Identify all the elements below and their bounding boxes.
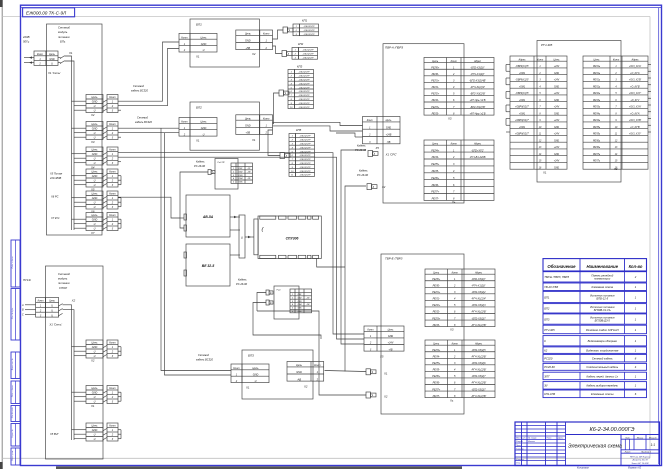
svg-text:Электрическая схема: Электрическая схема (568, 444, 622, 450)
svg-text:РЕЛ1ь: РЕЛ1ь (593, 66, 601, 68)
svg-text:-ОВР9(Х1)'5': -ОВР9(Х1)'5' (515, 80, 529, 82)
svg-text:Кабель: Кабель (359, 169, 368, 173)
svg-text:Подп.: Подп. (547, 437, 553, 440)
svg-text:Клеммная плата: Клеммная плата (591, 285, 613, 289)
svg-text:+О_КУ'А': +О_КУ'А' (630, 112, 640, 115)
svg-text:+ОУ1_Х3'А': +ОУ1_Х3'А' (629, 106, 642, 109)
svg-text:GND: GND (554, 140, 559, 142)
svg-text:БП2: БП2 (196, 106, 202, 110)
svg-text:-БП2-Х3(2)5: -БП2-Х3(2)5 (472, 349, 487, 352)
svg-text:Цепь: Цепь (594, 58, 601, 61)
svg-text:-БП2-Х3(2)7: -БП2-Х3(2)7 (472, 317, 487, 320)
svg-text:Цепь: Цепь (92, 171, 99, 174)
svg-text:GND: GND (92, 346, 98, 349)
svg-text:Конт: Конт (109, 123, 115, 126)
svg-text:БП1: БП1 (196, 23, 202, 27)
svg-text:Цепь: Цепь (92, 96, 99, 99)
svg-text:Масшт: Масшт (649, 437, 657, 439)
svg-text:Х6 РС: Х6 РС (50, 195, 59, 199)
svg-text:U: U (94, 223, 96, 226)
svg-text:Конт: Конт (452, 342, 458, 345)
svg-text:ПУ1Ж: ПУ1Ж (23, 278, 31, 282)
svg-text:Наименование: Наименование (587, 264, 619, 269)
svg-text:U: U (94, 180, 96, 183)
svg-text:РЕЛ5ь: РЕЛ5ь (593, 134, 601, 136)
svg-text:РЕЛ2-: РЕЛ2- (433, 311, 440, 314)
svg-text:Х7 КУ1: Х7 КУ1 (50, 216, 60, 220)
svg-text:+ОУ1_Х3'У': +ОУ1_Х3'У' (629, 134, 642, 136)
svg-text:-РГЧ-Х1(2)'В': -РГЧ-Х1(2)'В' (471, 369, 487, 372)
svg-text:Адрес: Адрес (517, 58, 526, 61)
svg-text:-ОВ-Х2-ПР: -ОВ-Х2-ПР (298, 72, 310, 74)
svg-text:-БП2-Х3(2)7: -БП2-Х3(2)7 (472, 375, 487, 378)
svg-text:+ОМ1: +ОМ1 (519, 100, 526, 102)
svg-text:+ОУ1_Х2'У': +ОУ1_Х2'У' (629, 93, 642, 95)
svg-text:ВЕ 32-5: ВЕ 32-5 (202, 264, 215, 268)
svg-text:РЕЛ3-: РЕЛ3- (433, 324, 440, 327)
svg-text:ПВР-А /ПВРЗ: ПВР-А /ПВРЗ (385, 45, 403, 49)
svg-text:Х1: Х1 (195, 55, 200, 59)
svg-text:Конт: Конт (109, 149, 115, 152)
svg-text:питания: питания (58, 281, 70, 285)
svg-text:+24V: +24V (554, 65, 560, 68)
svg-text:Андреев Ив. М: Андреев Ив. М (631, 459, 647, 462)
svg-text:Х7: Х7 (90, 231, 95, 235)
svg-text:-РГЧ-Х1(2)'В': -РГЧ-Х1(2)'В' (471, 356, 487, 359)
svg-text:-РГЧ-Х1(2)'В': -РГЧ-Х1(2)'В' (471, 382, 487, 385)
svg-text:Конт: Конт (37, 53, 43, 56)
svg-text:Кабель: Кабель (238, 278, 247, 282)
svg-text:Цепь: Цепь (92, 214, 99, 217)
svg-text:РЕЛ3+: РЕЛ3+ (432, 317, 440, 320)
svg-text:Иванов: Иванов (528, 441, 535, 443)
svg-text:-БП2-Х3(2)6: -БП2-Х3(2)6 (472, 362, 487, 365)
svg-text:Сетевой: Сетевой (137, 116, 149, 120)
svg-text:Цепь: Цепь (92, 425, 99, 428)
svg-text:-ОВ-Х2-ПР: -ОВ-Х2-ПР (302, 54, 314, 56)
svg-text:КП3: КП3 (297, 65, 303, 69)
svg-text:GND: GND (386, 126, 392, 129)
svg-text:Адрес: Адрес (630, 58, 639, 61)
svg-text:U: U (51, 309, 53, 312)
svg-text:Конт: Конт (233, 367, 239, 370)
svg-text:БП30В-С1-Пь: БП30В-С1-Пь (594, 308, 612, 312)
svg-text:-ОВ-Х2-ПР: -ОВ-Х2-ПР (299, 171, 311, 173)
svg-text:РЕЛ6ь: РЕЛ6ь (593, 140, 601, 142)
svg-text:Утв.: Утв. (516, 462, 521, 464)
svg-text:РЕЛ3ь: РЕЛ3ь (593, 100, 601, 102)
svg-text:Конт: Конт (109, 342, 115, 345)
svg-text:УВ-20 /УВЗ: УВ-20 /УВЗ (544, 285, 558, 289)
svg-text:+24V: +24V (554, 160, 560, 163)
svg-text:РЕЛ7-: РЕЛ7- (433, 395, 440, 398)
svg-text:РС-26-60: РС-26-60 (236, 282, 248, 286)
svg-text:GND: GND (245, 125, 251, 128)
svg-text:КП5: КП5 (296, 128, 302, 132)
svg-text:РЕЛ4ь: РЕЛ4ь (593, 119, 601, 122)
svg-text:-БП2-Х3(2)'В': -БП2-Х3(2)'В' (470, 93, 486, 96)
svg-text:GND: GND (554, 167, 559, 169)
svg-text:К6-2-34.00.000ГЭ: К6-2-34.00.000ГЭ (589, 427, 634, 433)
svg-text:GND: GND (201, 43, 207, 46)
svg-text:РЕЛ0-: РЕЛ0- (432, 73, 439, 76)
svg-text:Х1: Х1 (542, 171, 547, 175)
svg-text:GND: GND (92, 197, 98, 200)
svg-text:Цепь: Цепь (432, 60, 439, 63)
svg-text:+ОУ1_Х3'В': +ОУ1_Х3'В' (629, 120, 642, 122)
svg-text:РЕЛ1+: РЕЛ1+ (432, 291, 440, 294)
svg-text:ОВ1: ОВ1 (298, 294, 302, 296)
svg-text:+24V: +24V (554, 133, 560, 136)
svg-text:РС-26-60: РС-26-60 (357, 173, 369, 177)
svg-text:GND: GND (92, 101, 98, 104)
svg-text:Х1: Х1 (251, 138, 256, 142)
svg-text:-БП2-Х3(2)'4В': -БП2-Х3(2)'4В' (469, 80, 486, 83)
svg-text:-ОВ-Х2-ПР: -ОВ-Х2-ПР (298, 83, 310, 85)
svg-text:-РГЧ-Х1(2)'t': -РГЧ-Х1(2)'t' (470, 73, 485, 76)
svg-text:-П4: -П4 (247, 170, 250, 173)
svg-text:РиЧ: РиЧ (277, 290, 281, 292)
svg-text:U: U (94, 351, 96, 354)
svg-text:-ОВ-Х2-ПР: -ОВ-Х2-ПР (303, 34, 315, 36)
svg-text:GND: GND (92, 128, 98, 131)
svg-text:РЕЛ7ь: РЕЛ7ь (593, 161, 601, 163)
svg-text:Хь: Хь (449, 399, 454, 403)
svg-text:U: U (94, 158, 96, 161)
svg-text:БП1: БП1 (544, 295, 550, 299)
svg-text:+О_КУ'х': +О_КУ'х' (630, 100, 640, 102)
svg-text:БП30В-Д3-5: БП30В-Д3-5 (595, 319, 611, 323)
svg-text:модуль: модуль (58, 30, 68, 34)
svg-text:Цепь: Цепь (245, 33, 252, 36)
svg-text:-РГЧ-Х1(2)'t': -РГЧ-Х1(2)'t' (471, 285, 486, 288)
svg-text:Цепь: Цепь (433, 342, 440, 345)
svg-text:-АВ: -АВ (388, 348, 393, 351)
svg-text:GND: GND (554, 154, 559, 156)
svg-text:РЕЛ1-: РЕЛ1- (432, 86, 439, 89)
svg-text:11: 11 (291, 175, 293, 177)
svg-text:Цепь: Цепь (245, 117, 252, 120)
svg-text:Конт: Конт (109, 387, 115, 390)
svg-text:Дата: Дата (557, 438, 564, 440)
svg-text:+24V: +24V (554, 79, 560, 82)
svg-text:РТЧ-305: РТЧ-305 (544, 328, 555, 332)
svg-text:Цепь: Цепь (201, 36, 208, 39)
svg-text:1: 1 (233, 168, 234, 170)
svg-text:Завод НС 15-202: Завод НС 15-202 (631, 462, 649, 465)
svg-text:+24V: +24V (554, 146, 560, 149)
svg-text:+24V: +24V (554, 119, 560, 122)
svg-text:Конт: Конт (314, 364, 320, 367)
svg-text:1: 1 (292, 294, 293, 296)
svg-text:Цепь: Цепь (92, 342, 99, 345)
svg-text:Инв.№ подл.: Инв.№ подл. (11, 406, 14, 418)
svg-text:питания: питания (58, 35, 70, 39)
svg-text:-ОВ-Х2-ПР: -ОВ-Х2-ПР (299, 147, 311, 149)
svg-text:U: U (94, 396, 96, 399)
svg-text:кабель ВС320: кабель ВС320 (135, 120, 152, 124)
svg-text:ЕЖ000.00 ТК-С-9Л: ЕЖ000.00 ТК-С-9Л (26, 10, 67, 15)
svg-text:Конт: Конт (537, 58, 543, 61)
svg-text:Видеокамера обзорная: Видеокамера обзорная (588, 339, 618, 343)
svg-text:Адрес: Адрес (473, 142, 482, 145)
svg-text:-ОВ-Х2-ПР: -ОВ-Х2-ПР (299, 140, 311, 142)
svg-text:4: 4 (233, 177, 234, 180)
svg-text:Х3: Х3 (90, 140, 95, 144)
svg-text:+24V: +24V (554, 92, 560, 95)
svg-text:ТВР-Е /ТВРЗ: ТВР-Е /ТВРЗ (385, 257, 403, 261)
svg-text:+ОВР9(Х2)'7': +ОВР9(Х2)'7' (515, 107, 530, 109)
svg-text:-ОВ-Х2-ПР: -ОВ-Х2-ПР (299, 163, 311, 165)
svg-text:РЕЛ5+: РЕЛ5+ (431, 163, 439, 166)
svg-text:Х2: Х2 (71, 299, 76, 303)
svg-text:РЕЛ5ь: РЕЛ5ь (593, 127, 601, 129)
svg-text:РЕЛ1-: РЕЛ1- (433, 298, 440, 301)
svg-text:РЕЛ7ь: РЕЛ7ь (593, 154, 601, 156)
svg-text:Х3: Х3 (449, 328, 454, 332)
svg-text:-БП2-Х3(2)7: -БП2-Х3(2)7 (472, 388, 487, 391)
svg-text:ОВ4: ОВ4 (298, 303, 302, 306)
svg-text:U: U (203, 133, 205, 136)
svg-text:НПП им. ВН Карпов: НПП им. ВН Карпов (630, 457, 651, 459)
svg-text:-БП2-Х3(2)2: -БП2-Х3(2)2 (472, 291, 487, 294)
svg-text:Цепь: Цепь (296, 364, 303, 367)
svg-text:-ОВ-Х2-ПР: -ОВ-Х2-ПР (298, 107, 310, 109)
svg-text:-ОВ-Х2-ПР: -ОВ-Х2-ПР (302, 50, 314, 52)
svg-text:-РГЧ-Х1(2)'4': -РГЧ-Х1(2)'4' (471, 298, 486, 301)
svg-text:РЕЛ7-: РЕЛ7- (432, 198, 439, 201)
svg-text:-ОВ-Х2-ПР: -ОВ-Х2-ПР (303, 30, 315, 32)
svg-text:Сетевой: Сетевой (198, 353, 210, 357)
svg-text:+24V: +24V (554, 106, 560, 109)
svg-text:Конт: Конт (181, 121, 187, 124)
svg-text:220В: 220В (22, 35, 30, 39)
svg-text:-ОВ-Х2-ПР: -ОВ-Х2-ПР (299, 144, 311, 146)
svg-text:Цепь: Цепь (388, 329, 394, 332)
svg-text:Листов 1: Листов 1 (640, 452, 652, 454)
svg-text:СПОР: СПОР (59, 286, 67, 290)
svg-text:+ОМ1: +ОМ1 (519, 113, 526, 115)
svg-text:+ОВР9(Х2)'7': +ОВР9(Х2)'7' (515, 134, 530, 136)
svg-text:Конт: Конт (367, 119, 373, 122)
svg-text:1:1: 1:1 (651, 443, 656, 447)
svg-text:-ОВ-Х2-ПР: -ОВ-Х2-ПР (298, 99, 310, 101)
svg-text:-ОВ-Х2-ПР: -ОВ-Х2-ПР (298, 87, 310, 89)
svg-text:РиЧ ПР: РиЧ ПР (218, 162, 226, 164)
svg-text:Х5 Питан: Х5 Питан (49, 172, 63, 176)
svg-text:ЭУ: ЭУ (544, 384, 548, 388)
svg-text:Адрес: Адрес (474, 271, 483, 274)
svg-text:РЕЛ3+: РЕЛ3+ (431, 106, 439, 109)
svg-text:1: 1 (295, 50, 296, 52)
svg-text:-ОВ-Х2-ПР: -ОВ-Х2-ПР (303, 26, 315, 28)
svg-text:-РГЧ-Х1(2)'В': -РГЧ-Х1(2)'В' (471, 311, 487, 314)
svg-text:-ОВ-Х2-ПР: -ОВ-Х2-ПР (298, 91, 310, 93)
svg-text:Х2: Х2 (613, 167, 618, 171)
svg-text:БПВ-12-5: БПВ-12-5 (596, 297, 608, 301)
svg-text:РЕЛ2+: РЕЛ2+ (432, 304, 440, 307)
svg-text:Конт: Конт (452, 271, 458, 274)
svg-text:РЕЛ2ь: РЕЛ2ь (593, 93, 601, 95)
svg-text:Цепь: Цепь (433, 271, 440, 274)
svg-text:1: 1 (292, 136, 293, 138)
svg-text:-РГЧ-Х1(2)'В': -РГЧ-Х1(2)'В' (471, 395, 487, 398)
svg-text:GND: GND (92, 175, 98, 178)
svg-text:-БП2-Х3(2)'В': -БП2-Х3(2)'В' (470, 106, 486, 109)
svg-text:+24V: +24V (388, 342, 394, 345)
svg-text:РЕЛ3ь: РЕЛ3ь (593, 107, 601, 109)
svg-text:Лит: Лит (624, 437, 630, 439)
svg-text:РЕЛ1ь: РЕЛ1ь (593, 86, 601, 88)
svg-text:Обозначение: Обозначение (547, 264, 576, 269)
svg-text:+ОМ1: +ОМ1 (519, 73, 526, 75)
svg-text:РЕЛ7+: РЕЛ7+ (432, 388, 440, 391)
svg-text:РЕЛ5-: РЕЛ5- (433, 369, 440, 372)
svg-text:ОВ1: ОВ1 (239, 168, 243, 170)
svg-text:Цепь: Цепь (49, 300, 55, 303)
svg-text:РЕЛ2+: РЕЛ2+ (431, 93, 439, 96)
svg-text:+РГ-Чрь-'х1'В: +РГ-Чрь-'х1'В (470, 112, 486, 115)
svg-text:+ОУ1_Х2'В': +ОУ1_Х2'В' (629, 80, 642, 82)
svg-text:ТВР-Е /ТВРЗ, ПВРЗ: ТВР-Е /ТВРЗ, ПВРЗ (544, 275, 569, 279)
svg-text:Х2: Х2 (90, 113, 95, 117)
svg-text:Конт: Конт (109, 214, 115, 217)
svg-text:БП3: БП3 (544, 317, 550, 321)
svg-text:GND: GND (554, 127, 559, 129)
svg-text:Конт: Конт (451, 60, 457, 63)
svg-text:+ОУ1_Х2'А': +ОУ1_Х2'А' (629, 65, 642, 68)
svg-text:Конт: Конт (109, 193, 115, 196)
svg-text:Кабель выбора-передачи: Кабель выбора-передачи (586, 384, 618, 388)
svg-text:РЕЛ6+: РЕЛ6+ (432, 375, 440, 378)
svg-text:U: U (94, 202, 96, 205)
svg-text:К2: К2 (544, 348, 548, 352)
svg-text:РЕЛ3-: РЕЛ3- (432, 112, 439, 115)
svg-text:Х5: Х5 (375, 146, 380, 150)
svg-text:А: А (21, 304, 24, 307)
svg-text:Х1: Х1 (195, 139, 200, 143)
svg-text:-ОВ-Х2-ПР: -ОВ-Х2-ПР (299, 159, 311, 161)
svg-text:РЕЛ4-: РЕЛ4- (433, 356, 440, 359)
svg-text:коммутации: коммутации (594, 277, 610, 280)
svg-text:-ОВ-Х2-ПР: -ОВ-Х2-ПР (298, 103, 310, 105)
svg-text:+ОВР9(Х2)'7': +ОВР9(Х2)'7' (515, 120, 530, 122)
svg-text:Сетевой: Сетевой (133, 84, 145, 88)
svg-text:1: 1 (291, 72, 292, 74)
svg-text:РЕЛ5-: РЕЛ5- (432, 170, 439, 173)
svg-text:Масса: Масса (637, 437, 644, 439)
svg-text:+РГ-Чрь-'х1'В: +РГ-Чрь-'х1'В (470, 99, 486, 102)
svg-text:Разраб.: Разраб. (516, 441, 524, 443)
svg-text:4: 4 (292, 303, 293, 306)
svg-text:GND: GND (554, 73, 559, 75)
svg-text:РЕЛ4+: РЕЛ4+ (431, 149, 439, 152)
svg-text:Сетевой кабель: Сетевой кабель (592, 356, 613, 360)
svg-text:РЕЛ6-: РЕЛ6- (433, 382, 440, 385)
svg-text:Кабель: Кабель (357, 144, 366, 148)
svg-text:U: U (51, 305, 53, 308)
svg-text:-БП2-Х3(2)3: -БП2-Х3(2)3 (472, 304, 487, 307)
svg-text:GND: GND (92, 392, 98, 395)
svg-text:КП1: КП1 (302, 19, 308, 23)
svg-text:С: С (22, 314, 24, 317)
svg-text:РС-26-60: РС-26-60 (194, 164, 206, 168)
svg-text:Х2: Х2 (90, 359, 95, 363)
svg-text:модуль: модуль (58, 277, 68, 281)
svg-text:РЕЛ4-: РЕЛ4- (432, 156, 439, 159)
svg-text:Лист: Лист (624, 452, 631, 454)
svg-text:Клеммные платы: Клеммные платы (591, 392, 614, 396)
svg-text:-П4: -П4 (306, 303, 309, 306)
svg-text:U: U (94, 434, 96, 437)
svg-text:Хь: Хь (451, 200, 456, 204)
svg-text:Х1 'Сеть': Х1 'Сеть' (48, 323, 62, 327)
svg-text:Конт: Конт (613, 58, 619, 61)
svg-text:Х2: Х2 (381, 185, 386, 189)
svg-text:РЕЛ1ь: РЕЛ1ь (593, 80, 601, 82)
svg-text:U: U (94, 438, 96, 441)
svg-text:-ОВ-Х2-ПР: -ОВ-Х2-ПР (298, 80, 310, 82)
svg-text:Цепь: Цепь (92, 149, 99, 152)
svg-text:Х5 ВЧГ: Х5 ВЧГ (49, 432, 59, 436)
svg-text:КП1-КП6: КП1-КП6 (544, 392, 555, 396)
svg-text:Инв. № дубл.: Инв. № дубл. (11, 307, 14, 319)
svg-text:U: U (94, 105, 96, 108)
svg-text:-БП2+Х5'2': -БП2+Х5'2' (471, 149, 484, 152)
svg-text:Х3: Х3 (447, 117, 452, 121)
svg-text:Х2: Х2 (383, 395, 388, 399)
svg-text:-ОВР9(Х1)'5': -ОВР9(Х1)'5' (515, 66, 529, 68)
svg-text:-ОВ-Х2-ПР: -ОВ-Х2-ПР (298, 95, 310, 97)
svg-text:GND: GND (554, 100, 559, 102)
svg-text:БПь: БПь (60, 39, 66, 43)
svg-text:Кол-во: Кол-во (629, 264, 643, 269)
svg-text:GND: GND (92, 429, 98, 432)
svg-text:Подп. и дата: Подп. и дата (11, 385, 14, 397)
svg-text:Подп. и дата: Подп. и дата (11, 257, 14, 269)
svg-text:U: U (51, 63, 53, 66)
svg-text:Х1: Х1 (245, 386, 250, 390)
svg-text:GND: GND (201, 127, 207, 130)
svg-text:GND: GND (253, 373, 259, 376)
svg-text:Взам. инв. №: Взам. инв. № (11, 358, 14, 370)
svg-text:БП2: БП2 (544, 307, 550, 311)
svg-text:Пров.: Пров. (516, 445, 522, 447)
svg-text:+ОМ1: +ОМ1 (519, 127, 526, 129)
svg-text:РЕЛ0+: РЕЛ0+ (432, 278, 440, 281)
svg-text:БП3: БП3 (248, 354, 254, 358)
svg-text:Конт: Конт (367, 329, 373, 332)
svg-text:-ОВ-Х2-ПР: -ОВ-Х2-ПР (298, 76, 310, 78)
svg-text:Адрес: Адрес (474, 342, 483, 345)
svg-text:GND: GND (245, 40, 251, 43)
svg-text:Цепь: Цепь (386, 119, 392, 122)
svg-text:РЕЛ1ь: РЕЛ1ь (593, 73, 601, 75)
svg-text:+О_КУ'В': +О_КУ'В' (630, 86, 640, 88)
svg-text:+24В: +24В (386, 134, 392, 137)
svg-text:РЕЛ0-: РЕЛ0- (433, 285, 440, 288)
svg-text:U: U (94, 132, 96, 135)
svg-text:+ОМ1: +ОМ1 (519, 86, 526, 88)
svg-text:Цепь: Цепь (49, 53, 55, 56)
svg-text:-БП2-Х3(2)'t': -БП2-Х3(2)'t' (470, 66, 485, 69)
svg-text:КП2: КП2 (298, 42, 304, 46)
svg-text:+5В: +5В (246, 132, 251, 135)
svg-text:РЕЛ1+: РЕЛ1+ (431, 80, 439, 83)
svg-text:Изм Лист: Изм Лист (516, 438, 526, 440)
svg-text:Цепь: Цепь (92, 193, 99, 196)
svg-text:U: U (51, 314, 53, 317)
